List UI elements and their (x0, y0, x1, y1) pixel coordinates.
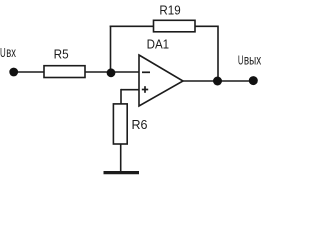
svg-text:R6: R6 (132, 117, 148, 132)
svg-text:R5: R5 (54, 47, 69, 62)
svg-text:U: U (238, 53, 244, 67)
svg-text:вх: вх (6, 45, 16, 60)
svg-text:вых: вых (244, 52, 261, 67)
svg-text:R19: R19 (159, 3, 180, 18)
svg-text:DA1: DA1 (147, 38, 170, 52)
svg-text:U: U (0, 46, 6, 60)
